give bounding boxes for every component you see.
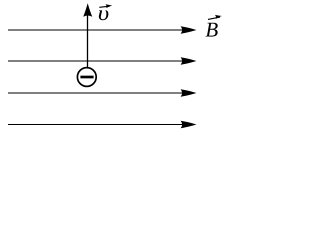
svg-text:B: B [205, 17, 218, 41]
